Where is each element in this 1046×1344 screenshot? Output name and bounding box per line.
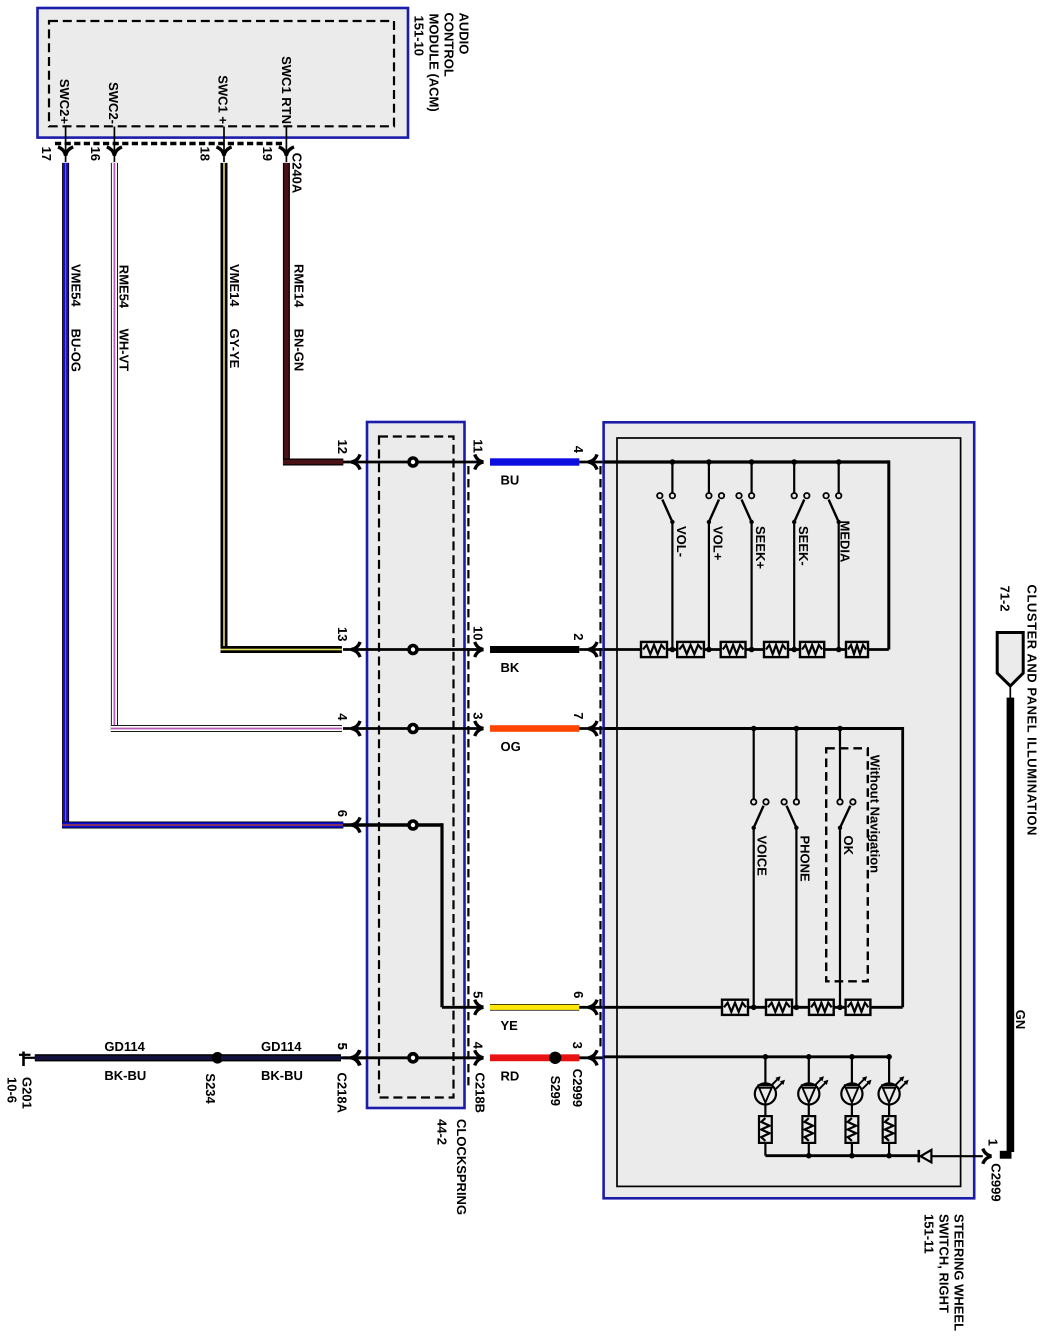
- svg-text:AUDIO: AUDIO: [457, 13, 472, 55]
- svg-text:C2999: C2999: [570, 1069, 585, 1107]
- label GD114 BK-BU (right): [261, 1039, 303, 1083]
- ACM pin label SWC2+: [57, 79, 72, 125]
- svg-text:19: 19: [260, 147, 275, 161]
- pin number 6: [571, 991, 586, 998]
- wire resistor ladder row YE inside switch box: [604, 1006, 846, 1009]
- wire segment OG: [490, 725, 579, 732]
- label BU: [501, 473, 520, 488]
- wire GD114 BK-BU ground segment 1: [35, 1054, 214, 1061]
- label C2999: [570, 1069, 585, 1107]
- junction node on LED return bus: [886, 1153, 892, 1159]
- wire VME54 BU-OG from ACM pin 17 to clockspring pin 6: [62, 163, 343, 829]
- label C2999: [988, 1163, 1003, 1201]
- steering wheel switch C2999 pin 4 arrow (row BU): [579, 454, 617, 469]
- terminal square at GN wire end: [1000, 1151, 1012, 1159]
- label BK: [501, 660, 520, 675]
- svg-text:5: 5: [471, 991, 486, 998]
- pin number 6: [335, 810, 350, 817]
- clockspring C218A pin 12 arrow (row BU): [343, 454, 367, 469]
- svg-text:C218B: C218B: [473, 1073, 488, 1113]
- wire LED cathode return bus: [765, 1154, 918, 1157]
- wire diode output to C2999 pin 1: [961, 1155, 983, 1157]
- wire segment BK: [490, 646, 579, 653]
- splice S234: [212, 1052, 224, 1064]
- svg-text:MEDIA: MEDIA: [837, 521, 852, 564]
- label YE: [501, 1018, 519, 1033]
- wire row BK through clockspring: [367, 648, 484, 651]
- label 71-2: [998, 586, 1013, 612]
- label GN: [1013, 1010, 1028, 1030]
- svg-text:151-10: 151-10: [412, 16, 427, 56]
- clockspring inner dashed boundary: [379, 437, 454, 1098]
- switch VOL-: [657, 459, 675, 652]
- svg-text:C240A: C240A: [289, 153, 304, 194]
- connector C2999 dashed line: [599, 466, 601, 1050]
- label PHONE: [797, 836, 812, 883]
- wire bus drop to resistor ladder (group 2): [870, 727, 902, 1007]
- label Without Navigation: [867, 755, 882, 873]
- ground G201 symbol: [19, 1052, 36, 1067]
- module steering wheel switch box: [604, 422, 975, 1198]
- resistor R11 LED ballast: [759, 1105, 772, 1156]
- resistor R8: [766, 1000, 792, 1015]
- connector arrow at ACM pin 17: [58, 147, 73, 156]
- wire GD114 BK-BU ground segment 2: [221, 1054, 341, 1061]
- pin number 2: [571, 633, 586, 640]
- svg-text:OG: OG: [501, 739, 521, 754]
- wire segment YE: [490, 1004, 579, 1011]
- label VME14 GY-YE: [227, 264, 242, 369]
- svg-text:CONTROL: CONTROL: [442, 13, 457, 77]
- pin number 7: [571, 712, 586, 719]
- pin number 3: [471, 712, 486, 719]
- svg-text:SWC1 RTN: SWC1 RTN: [279, 56, 294, 124]
- pin number 19: [260, 147, 275, 161]
- svg-text:OK: OK: [841, 836, 856, 856]
- svg-text:12: 12: [335, 440, 350, 454]
- label VME54 BU-OG: [69, 264, 84, 372]
- resistor R14 LED ballast: [883, 1105, 896, 1156]
- svg-text:Without Navigation: Without Navigation: [867, 755, 882, 873]
- svg-text:BU: BU: [501, 473, 520, 488]
- pin number 1: [985, 1139, 1000, 1146]
- ACM inner dashed boundary: [49, 21, 394, 126]
- wire RME54 WH-VT from ACM pin 16 to clockspring pin 4: [111, 163, 342, 732]
- connector C240A dashed line: [55, 142, 284, 145]
- svg-text:7: 7: [571, 712, 586, 719]
- svg-text:CLOCKSPRING: CLOCKSPRING: [454, 1119, 469, 1215]
- steering wheel switch C2999 pin 7 arrow (row OG): [579, 721, 617, 736]
- svg-text:3: 3: [570, 1042, 585, 1049]
- svg-text:SWC1 +: SWC1 +: [216, 75, 231, 124]
- svg-text:YE: YE: [501, 1018, 519, 1033]
- ACM pin label SWC1 +: [216, 75, 231, 124]
- label OK: [841, 836, 856, 856]
- wire row OG through clockspring: [367, 727, 484, 730]
- ACM pin 16 lead: [113, 127, 115, 163]
- clockspring C218A pin 13 arrow (row BK): [343, 642, 367, 657]
- svg-text:16: 16: [88, 147, 103, 161]
- svg-text:STEERING WHEEL: STEERING WHEEL: [952, 1214, 967, 1331]
- connector arrow at ACM pin 19: [279, 147, 294, 156]
- label VOICE: [755, 836, 770, 877]
- steering wheel switch inner boundary: [617, 438, 961, 1186]
- svg-text:13: 13: [335, 627, 350, 641]
- wire bus drop to resistor ladder (group 1): [868, 460, 889, 649]
- svg-text:3: 3: [471, 712, 486, 719]
- resistor R7: [722, 1000, 748, 1015]
- pin number 18: [198, 147, 213, 161]
- diode CR1: [919, 1150, 961, 1163]
- svg-text:GN: GN: [1013, 1010, 1028, 1030]
- svg-text:10: 10: [471, 626, 486, 640]
- resistor R10: [846, 1000, 871, 1015]
- LED D2 illumination lamp: [798, 1054, 828, 1105]
- label RME54 WH-VT: [117, 265, 132, 371]
- label C218B: [473, 1073, 488, 1113]
- svg-text:BK-BU: BK-BU: [104, 1068, 146, 1083]
- ACM pin 18 lead: [223, 127, 225, 163]
- LED D3 illumination lamp: [841, 1054, 871, 1105]
- steering wheel switch C2999 pin 3 arrow (row RD): [579, 1050, 617, 1065]
- clockspring ring contact (row RD): [409, 1054, 417, 1062]
- wire segment RD: [490, 1054, 579, 1061]
- wire VME14 GY-YE from ACM pin 18 to clockspring pin 13: [221, 163, 342, 653]
- clockspring ring contact (row BU): [409, 458, 417, 466]
- wire bus row BU inside switch box: [604, 460, 889, 463]
- pin number 3: [570, 1042, 585, 1049]
- wire segment RD to C2999: [562, 1054, 580, 1061]
- clockspring ring contact (row 6): [409, 821, 417, 829]
- connector C218B dashed line: [467, 466, 469, 1087]
- svg-text:PHONE: PHONE: [797, 836, 812, 883]
- pin number 5: [335, 1043, 350, 1050]
- svg-text:VOICE: VOICE: [755, 836, 770, 877]
- resistor R12 LED ballast: [802, 1105, 815, 1156]
- module U1 AUDIO CONTROL MODULE (ACM) box: [38, 8, 409, 138]
- steering wheel switch C2999 pin 1 arrow: [983, 1149, 992, 1164]
- svg-text:RD: RD: [501, 1069, 520, 1084]
- svg-text:SEEK+: SEEK+: [753, 526, 768, 569]
- wire GN illumination feed: [1007, 698, 1015, 1152]
- svg-text:GD114: GD114: [261, 1039, 302, 1054]
- pin number 4: [571, 446, 586, 454]
- wire row YE through clockspring: [442, 1006, 484, 1009]
- steering wheel switch C2999 pin 2 arrow (row BK): [579, 642, 617, 657]
- svg-text:SWITCH, RIGHT: SWITCH, RIGHT: [937, 1214, 952, 1313]
- clockspring C218A pin 5 arrow (row RD): [341, 1050, 367, 1065]
- resistor R9: [809, 1000, 834, 1015]
- label STEERING WHEEL SWITCH, RIGHT 151-11: [922, 1214, 967, 1331]
- Without Navigation dashed option box: [826, 748, 868, 981]
- label RD: [501, 1069, 520, 1084]
- ACM pin label SWC1 RTN: [279, 56, 294, 124]
- LED D4 illumination lamp: [879, 1054, 909, 1105]
- svg-text:BU-OG: BU-OG: [69, 329, 84, 372]
- clockspring C218A pin 4 arrow (row OG): [343, 721, 367, 736]
- svg-text:10-6: 10-6: [5, 1077, 20, 1103]
- svg-text:11: 11: [471, 439, 486, 453]
- svg-text:RME14: RME14: [291, 264, 306, 308]
- svg-text:17: 17: [39, 147, 54, 161]
- pin number 11: [471, 439, 486, 453]
- switch SEEK+: [736, 459, 754, 652]
- resistor R1: [641, 642, 667, 657]
- label SEEK+: [753, 526, 768, 569]
- svg-text:4: 4: [571, 446, 586, 454]
- label S299: [548, 1076, 563, 1106]
- svg-text:BN-GN: BN-GN: [291, 329, 306, 372]
- label CLUSTER AND PANEL ILLUMINATION: [1025, 585, 1040, 836]
- connector arrow at ACM pin 16: [107, 147, 122, 156]
- pin number 17: [39, 147, 54, 161]
- svg-text:4: 4: [471, 1042, 486, 1050]
- pin number 4: [335, 713, 350, 721]
- clockspring ring contact (row RD): [409, 1054, 417, 1062]
- clockspring C218B pin 3 arrow (row OG): [475, 721, 484, 736]
- pin number 5: [471, 991, 486, 998]
- svg-text:GY-YE: GY-YE: [227, 329, 242, 369]
- svg-text:BK-BU: BK-BU: [261, 1068, 303, 1083]
- resistor R13 LED ballast: [846, 1105, 859, 1156]
- label MEDIA: [837, 521, 852, 564]
- svg-text:RME54: RME54: [117, 265, 132, 309]
- pin number 4: [471, 1042, 486, 1050]
- svg-text:C218A: C218A: [334, 1073, 349, 1114]
- svg-text:VOL-: VOL-: [674, 526, 689, 557]
- clockspring C218B pin 5 arrow (row YE): [475, 1000, 484, 1015]
- switch SEEK-: [791, 459, 809, 652]
- svg-text:18: 18: [198, 147, 213, 161]
- ACM pin label SWC2-: [106, 82, 121, 124]
- wire internal clockspring link pin6 to pin5: [367, 823, 442, 1007]
- svg-text:SWC2-: SWC2-: [106, 82, 121, 124]
- svg-text:71-2: 71-2: [998, 586, 1013, 612]
- svg-text:44-2: 44-2: [435, 1119, 450, 1145]
- steering wheel switch C2999 pin 6 arrow (row YE): [579, 1000, 617, 1015]
- svg-text:CLUSTER AND PANEL ILLUMINATION: CLUSTER AND PANEL ILLUMINATION: [1025, 585, 1040, 836]
- pin number 10: [471, 626, 486, 640]
- svg-text:WH-VT: WH-VT: [117, 329, 132, 372]
- svg-text:4: 4: [335, 713, 350, 721]
- wire LED supply row RD inside switch box: [604, 1055, 890, 1058]
- splice S299: [549, 1052, 561, 1064]
- switch MEDIA: [823, 459, 841, 652]
- resistor R4: [764, 642, 788, 657]
- junction node on LED return bus: [806, 1153, 812, 1159]
- label GD114 BK-BU (left): [104, 1039, 146, 1083]
- label C218A: [334, 1073, 349, 1114]
- pin number 5: [335, 1043, 350, 1050]
- svg-text:VME14: VME14: [227, 264, 242, 307]
- component clockspring box: [367, 422, 465, 1108]
- pin number 16: [88, 147, 103, 161]
- label G201 10-6: [5, 1077, 35, 1109]
- resistor R3: [721, 642, 746, 657]
- clockspring ring contact (row OG): [409, 725, 417, 733]
- switch PHONE: [781, 726, 799, 1010]
- svg-text:6: 6: [335, 810, 350, 817]
- wire RME14 BN-GN from ACM pin 19 to clockspring pin 12: [283, 163, 343, 466]
- svg-text:C2999: C2999: [988, 1163, 1003, 1201]
- svg-text:2: 2: [571, 633, 586, 640]
- svg-text:151-11: 151-11: [922, 1214, 937, 1254]
- resistor R6: [846, 642, 868, 657]
- pin number 12: [335, 440, 350, 454]
- wire resistor ladder row BK inside switch box: [604, 648, 846, 651]
- clockspring ring contact (row BK): [409, 646, 417, 654]
- clockspring C218A pin 6 arrow (row BU-OG): [343, 817, 367, 832]
- svg-text:6: 6: [571, 991, 586, 998]
- junction node on LED return bus: [849, 1153, 855, 1159]
- ACM pin 17 lead: [65, 127, 67, 163]
- label RME14 BN-GN: [291, 264, 306, 371]
- svg-text:VME54: VME54: [69, 264, 84, 307]
- svg-text:SWC2+: SWC2+: [57, 79, 72, 125]
- connector 71-2 CLUSTER AND PANEL ILLUMINATION off-page arrow: [997, 633, 1023, 699]
- svg-text:1: 1: [985, 1139, 1000, 1146]
- ACM pin 19 lead: [285, 127, 287, 163]
- label C240A: [289, 153, 304, 194]
- label S234: [203, 1073, 218, 1104]
- clockspring C218B pin 4 arrow (row RD): [475, 1050, 484, 1065]
- label VOL-: [674, 526, 689, 557]
- switch VOL+: [706, 459, 724, 652]
- svg-text:S234: S234: [203, 1073, 218, 1104]
- switch OK: [837, 726, 855, 1010]
- clockspring C218B pin 10 arrow (row BK): [475, 642, 484, 657]
- label ACM title 151-10: [412, 13, 472, 112]
- label SEEK-: [796, 526, 811, 566]
- svg-text:GD114: GD114: [104, 1039, 145, 1054]
- resistor R5: [800, 642, 824, 657]
- wire bus row OG inside switch box: [604, 727, 903, 730]
- switch VOICE: [751, 726, 769, 1010]
- label CLOCKSPRING 44-2: [435, 1119, 470, 1215]
- pin number 13: [335, 627, 350, 641]
- svg-text:G201: G201: [19, 1077, 34, 1109]
- LED D1 illumination lamp: [755, 1054, 785, 1105]
- svg-text:MODULE (ACM): MODULE (ACM): [427, 14, 442, 112]
- svg-text:SEEK-: SEEK-: [796, 526, 811, 566]
- wire row BU through clockspring: [367, 461, 484, 464]
- label VOL+: [711, 526, 726, 561]
- svg-text:VOL+: VOL+: [711, 526, 726, 561]
- clockspring C218B pin 11 arrow (row BU): [475, 454, 484, 469]
- label OG: [501, 739, 521, 754]
- wire segment BU: [490, 458, 579, 465]
- svg-text:BK: BK: [501, 660, 520, 675]
- clockspring C218A pin 5 arrow (row RD): [343, 1050, 367, 1065]
- svg-text:5: 5: [335, 1043, 350, 1050]
- resistor R2: [677, 642, 704, 657]
- connector arrow at ACM pin 18: [216, 147, 231, 156]
- svg-text:S299: S299: [548, 1076, 563, 1106]
- wire row RD through clockspring: [367, 1056, 484, 1059]
